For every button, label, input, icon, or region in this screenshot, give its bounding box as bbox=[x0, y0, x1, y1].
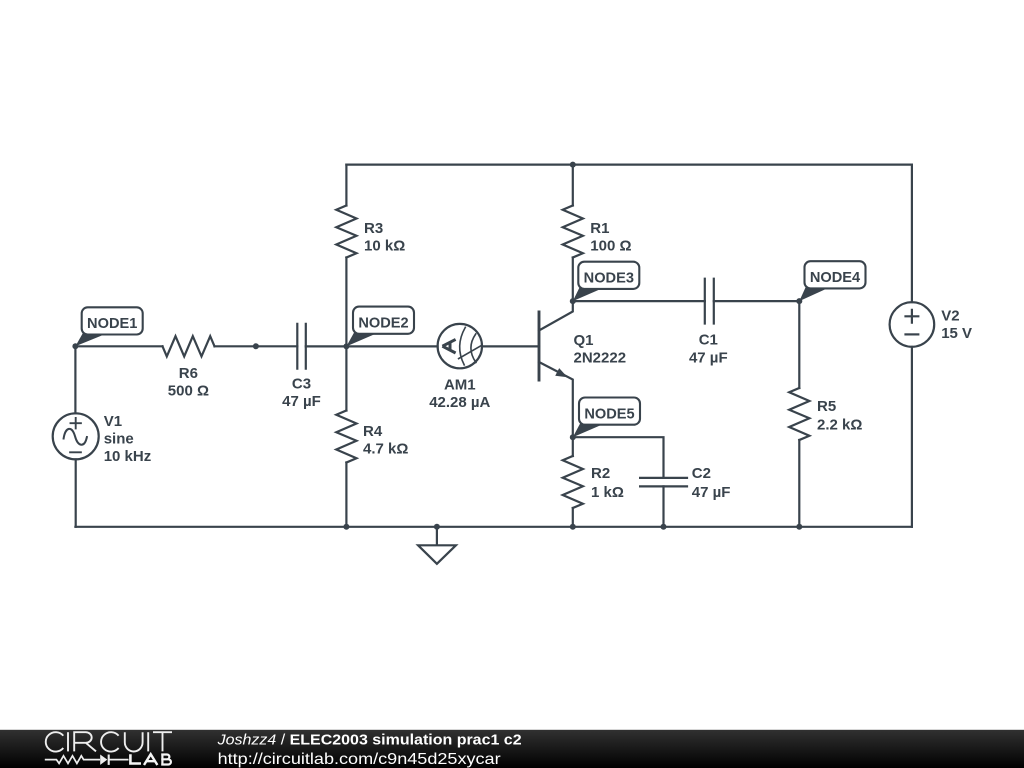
resistor R6 bbox=[163, 336, 215, 356]
svg-text:AM1: AM1 bbox=[444, 376, 476, 393]
svg-text:NODE1: NODE1 bbox=[87, 316, 137, 332]
svg-text:V1: V1 bbox=[104, 413, 122, 430]
wire NODE5 horizontal bbox=[573, 437, 664, 478]
svg-text:2N2222: 2N2222 bbox=[574, 350, 627, 367]
wire C2 to bottom rail bbox=[662, 486, 664, 526]
label V1 value bbox=[104, 413, 152, 465]
wire R4 to bottom rail bbox=[345, 463, 347, 527]
resistor R4 bbox=[336, 411, 356, 463]
node NODE4 junction bbox=[796, 298, 802, 304]
wire V1 to bottom rail bbox=[75, 459, 77, 527]
svg-text:C1: C1 bbox=[699, 332, 718, 349]
wire NODE2 to AM1 bbox=[346, 345, 437, 347]
capacitor C1 bbox=[705, 279, 714, 324]
node NODE1 junction bbox=[72, 343, 78, 349]
label R1 value bbox=[590, 220, 631, 255]
footer title line bbox=[216, 732, 521, 748]
capacitor C3 bbox=[297, 324, 306, 369]
logo CIRCUIT text bbox=[46, 732, 172, 751]
resistor R5 bbox=[789, 388, 809, 440]
junction bottom R2 bbox=[570, 524, 576, 530]
wire R6 to C3 bbox=[215, 345, 298, 347]
ground bbox=[418, 527, 456, 564]
wire C3 to NODE2 bbox=[306, 345, 347, 347]
svg-text:R6: R6 bbox=[179, 365, 198, 382]
svg-text:R1: R1 bbox=[590, 220, 609, 237]
svg-text:2.2 kΩ: 2.2 kΩ bbox=[817, 417, 862, 434]
label R3 value bbox=[364, 220, 405, 255]
wire R3 branch top lead bbox=[345, 165, 347, 206]
svg-text:10 kΩ: 10 kΩ bbox=[364, 238, 405, 255]
ammeter AM1 bbox=[438, 324, 482, 368]
svg-text:47 µF: 47 µF bbox=[282, 393, 321, 410]
svg-text:Q1: Q1 bbox=[574, 332, 594, 349]
voltage source V1 bbox=[53, 413, 99, 459]
wire top rail bbox=[346, 164, 912, 166]
svg-text:42.28 µA: 42.28 µA bbox=[429, 394, 490, 411]
footer bar bbox=[0, 730, 1024, 768]
resistor R3 bbox=[336, 206, 356, 258]
label C3 value bbox=[282, 375, 321, 410]
resistor R2 bbox=[563, 456, 583, 508]
wire V2 to bottom rail bbox=[911, 347, 913, 527]
label R6 value bbox=[168, 365, 209, 400]
svg-text:NODE5: NODE5 bbox=[584, 406, 634, 422]
label V2 value bbox=[941, 308, 972, 343]
node NODE5 junction bbox=[570, 434, 576, 440]
node NODE2 junction bbox=[343, 343, 349, 349]
svg-text:15 V: 15 V bbox=[941, 325, 972, 342]
svg-text:Joshzz4 / ELEC2003 simulation: Joshzz4 / ELEC2003 simulation prac1 c2 bbox=[216, 732, 521, 748]
svg-text:47 µF: 47 µF bbox=[692, 484, 731, 501]
svg-text:sine: sine bbox=[104, 431, 134, 448]
svg-text:R2: R2 bbox=[591, 465, 610, 482]
svg-text:NODE4: NODE4 bbox=[810, 270, 861, 286]
label R2 value bbox=[591, 465, 624, 501]
footer url line bbox=[218, 751, 502, 768]
logo LAB text bbox=[129, 754, 171, 765]
junction top rail / R1 bbox=[570, 162, 576, 168]
label R5 value bbox=[817, 398, 862, 434]
label Q1 value bbox=[574, 332, 627, 367]
svg-text:47 µF: 47 µF bbox=[689, 349, 728, 366]
wire V1 top lead bbox=[74, 346, 76, 413]
svg-text:NODE2: NODE2 bbox=[358, 316, 408, 332]
node label NODE1 bbox=[75, 307, 142, 346]
label AM1 value bbox=[429, 376, 490, 411]
node label NODE3 bbox=[573, 262, 640, 301]
svg-text:500 Ω: 500 Ω bbox=[168, 383, 209, 400]
svg-text:100 Ω: 100 Ω bbox=[590, 238, 631, 255]
svg-text:http://circuitlab.com/c9n45d25: http://circuitlab.com/c9n45d25xycar bbox=[218, 751, 502, 768]
wire NODE5 to R2 bbox=[572, 437, 574, 456]
transistor Q1 bbox=[539, 301, 573, 437]
svg-text:4.7 kΩ: 4.7 kΩ bbox=[363, 441, 408, 458]
wire bottom rail bbox=[75, 526, 912, 528]
wire AM1 to Q1 base bbox=[482, 345, 539, 347]
logo resistor-diode glyph bbox=[45, 755, 129, 765]
junction bottom R4 bbox=[343, 524, 349, 530]
wire NODE2 to R4 bbox=[345, 346, 347, 410]
resistor R1 bbox=[563, 206, 583, 258]
svg-text:R5: R5 bbox=[817, 398, 836, 415]
voltage source V2 bbox=[890, 302, 935, 347]
svg-text:C3: C3 bbox=[292, 375, 311, 392]
wire R1 top lead bbox=[572, 165, 574, 206]
wire R5 to bottom rail bbox=[798, 440, 800, 527]
label R4 value bbox=[363, 423, 408, 458]
node label NODE5 bbox=[573, 398, 640, 438]
svg-text:V2: V2 bbox=[941, 308, 959, 325]
wire R3 to NODE2 bbox=[345, 258, 347, 347]
svg-text:1 kΩ: 1 kΩ bbox=[591, 484, 624, 501]
wire C1 to NODE4 bbox=[714, 300, 800, 302]
junction bottom R5 bbox=[796, 524, 802, 530]
junction bottom ground bbox=[434, 524, 440, 530]
wire NODE1 to R6 bbox=[75, 345, 162, 347]
svg-text:NODE3: NODE3 bbox=[584, 271, 634, 287]
junction bottom C2 bbox=[661, 524, 667, 530]
svg-text:R3: R3 bbox=[364, 220, 383, 237]
label C1 value bbox=[689, 332, 728, 367]
wire R1 to NODE3 bbox=[572, 258, 574, 302]
wire NODE4 to R5 bbox=[798, 301, 800, 388]
wire NODE3 to C1 bbox=[573, 300, 705, 302]
node label NODE2 bbox=[346, 307, 414, 347]
svg-text:10 kHz: 10 kHz bbox=[104, 448, 152, 465]
node label NODE4 bbox=[799, 261, 865, 301]
svg-text:C2: C2 bbox=[692, 465, 711, 482]
wire R2 to bottom rail bbox=[572, 508, 574, 527]
node NODE3 junction bbox=[570, 298, 576, 304]
capacitor C2 bbox=[640, 478, 687, 487]
junction R6-C3 bbox=[253, 343, 259, 349]
label C2 value bbox=[692, 465, 731, 501]
svg-text:R4: R4 bbox=[363, 423, 383, 440]
wire V2 top lead bbox=[911, 165, 913, 303]
